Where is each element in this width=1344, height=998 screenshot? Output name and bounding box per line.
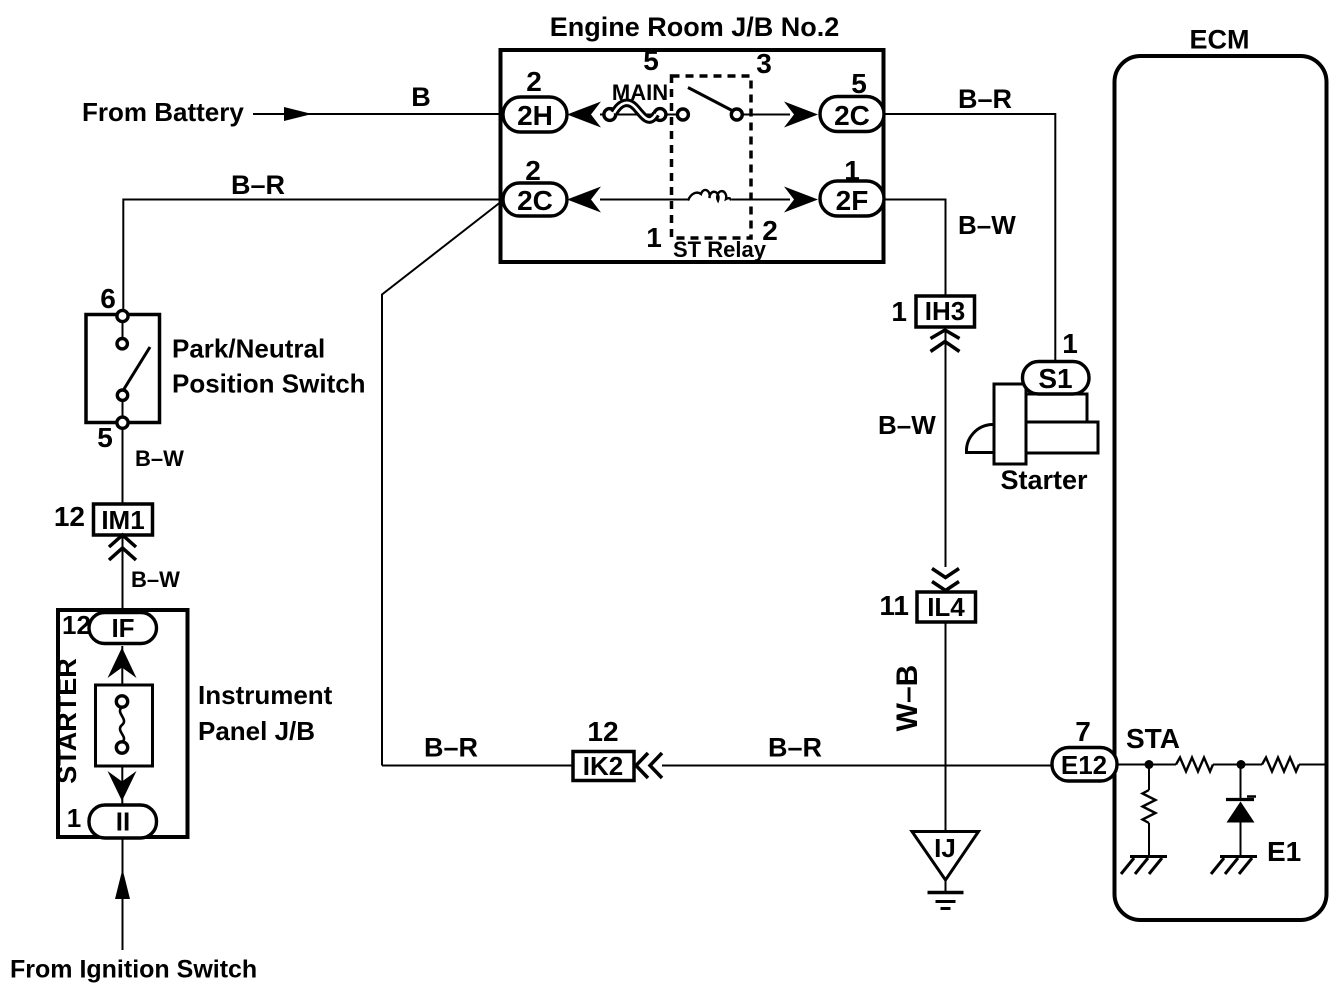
svg-text:S1: S1: [1038, 363, 1072, 394]
svg-text:1: 1: [67, 803, 81, 833]
svg-text:Starter: Starter: [1000, 465, 1088, 495]
ECM box: [1115, 56, 1327, 920]
connector IK2: [573, 752, 634, 781]
wire B-R from 2C row2 to P/N switch: [123, 200, 503, 312]
svg-text:1: 1: [891, 296, 907, 327]
Engine Room J/B No.2 block: [501, 50, 884, 262]
wire diagonal from 2C row2 to bottom bus: [382, 201, 502, 766]
svg-text:IM1: IM1: [101, 505, 144, 535]
wire P/N switch to IM1: [122, 428, 124, 505]
svg-text:B–W: B–W: [958, 210, 1016, 240]
arrowhead from ignition switch: [115, 869, 130, 899]
P/N switch terminal circles and arm: [122, 316, 124, 344]
svg-text:B–R: B–R: [958, 84, 1012, 114]
arrowhead into 2H: [567, 102, 601, 128]
svg-text:B–R: B–R: [231, 170, 285, 200]
relay switch contact left: [677, 109, 688, 120]
ST Relay dashed enclosure: [672, 76, 752, 238]
svg-text:B–W: B–W: [878, 410, 936, 440]
wire From Battery feed B: [253, 113, 503, 115]
connector chevrons IK2: [636, 753, 648, 778]
svg-text:STA: STA: [1126, 723, 1180, 754]
svg-text:IF: IF: [111, 613, 134, 643]
arrowhead into 2F: [784, 187, 818, 213]
bottom bus wire B-R: [382, 765, 573, 767]
svg-text:IJ: IJ: [934, 833, 956, 863]
wire IK2 to E12: [662, 765, 1052, 767]
svg-text:Instrument: Instrument: [198, 680, 333, 710]
arrow down inside panel: [108, 771, 137, 801]
arrow up inside panel: [108, 648, 137, 679]
wire B-R from 2C to starter S1: [884, 114, 1055, 361]
svg-text:5: 5: [851, 68, 867, 99]
wire fuse to II: [121, 765, 123, 806]
connector chevrons IM1: [109, 535, 136, 547]
connector 2C top right: [820, 97, 884, 132]
svg-text:E12: E12: [1061, 750, 1107, 780]
wire to ECM right: [1299, 764, 1325, 766]
connector IL4: [917, 592, 976, 622]
wire IF to fuse: [121, 646, 123, 686]
connector IH3: [916, 296, 975, 327]
connector II: [89, 805, 157, 838]
svg-text:5: 5: [643, 45, 659, 76]
resistor R2: [1262, 758, 1299, 772]
resistor R1: [1176, 758, 1213, 772]
connector IM1: [94, 504, 153, 535]
fuse symbol: [116, 696, 127, 707]
svg-text:2H: 2H: [517, 100, 553, 131]
starter motor drawing: [966, 425, 1000, 453]
svg-text:5: 5: [97, 422, 113, 453]
wire IH3 to IL4: [945, 330, 947, 567]
svg-text:3: 3: [756, 48, 772, 79]
svg-text:11: 11: [879, 590, 909, 621]
connector S1: [1023, 362, 1090, 395]
junction node 2: [1237, 760, 1246, 769]
svg-text:Position Switch: Position Switch: [172, 369, 366, 399]
svg-text:II: II: [116, 807, 130, 837]
connector 2F: [820, 181, 884, 216]
wire E12 to internal network: [1117, 764, 1176, 766]
wire row2 inside J/B: [600, 199, 688, 201]
wire IM1 to Instrument Panel J/B: [122, 535, 124, 609]
svg-text:From Battery: From Battery: [82, 97, 244, 127]
svg-text:B–R: B–R: [424, 733, 478, 763]
arrowhead battery feed: [284, 107, 312, 121]
svg-text:From Ignition Switch: From Ignition Switch: [10, 956, 257, 984]
svg-text:ST Relay: ST Relay: [673, 237, 767, 262]
svg-text:12: 12: [62, 610, 91, 640]
svg-text:IH3: IH3: [925, 296, 965, 326]
connector 2C row2 left: [503, 183, 567, 216]
svg-text:12: 12: [54, 501, 85, 532]
svg-text:2F: 2F: [836, 185, 869, 216]
svg-text:Park/Neutral: Park/Neutral: [172, 334, 325, 364]
svg-text:IK2: IK2: [583, 751, 623, 781]
svg-text:12: 12: [587, 716, 618, 747]
wire 2F to IH3: [884, 200, 946, 297]
svg-text:STARTER: STARTER: [52, 658, 82, 784]
svg-text:Panel J/B: Panel J/B: [198, 716, 315, 746]
Instrument Panel J/B box: [58, 610, 188, 837]
svg-text:7: 7: [1075, 716, 1091, 747]
ground symbol IJ: [912, 832, 979, 881]
svg-text:6: 6: [100, 283, 116, 314]
wire between resistors: [1213, 764, 1262, 766]
relay switch contact right: [731, 109, 742, 120]
svg-text:2: 2: [762, 215, 778, 246]
diode D1: [1226, 798, 1254, 801]
svg-text:W–B: W–B: [891, 665, 924, 732]
connector IF: [89, 613, 157, 644]
STARTER fuse box: [96, 685, 153, 766]
svg-text:B–W: B–W: [131, 567, 180, 592]
svg-text:B–W: B–W: [135, 446, 184, 471]
chassis ground 2: [1220, 855, 1257, 858]
connector E12: [1052, 748, 1117, 782]
wire row1 inside J/B: [600, 114, 684, 116]
connector chevrons IH3: [931, 330, 960, 339]
arrowhead into 2C top right: [784, 102, 818, 128]
connector 2H: [503, 97, 567, 132]
wire II to ignition switch: [122, 837, 124, 950]
svg-text:2: 2: [526, 66, 542, 97]
svg-text:Engine Room J/B No.2: Engine Room J/B No.2: [550, 12, 840, 42]
resistor R3 vertical: [1143, 790, 1156, 823]
junction node 1: [1145, 760, 1154, 769]
Park/Neutral Position Switch box: [86, 315, 160, 423]
relay switch arm: [688, 88, 734, 112]
svg-text:B: B: [411, 82, 431, 112]
svg-text:1: 1: [646, 222, 662, 253]
svg-text:ECM: ECM: [1190, 25, 1250, 55]
svg-text:E1: E1: [1267, 836, 1301, 867]
svg-text:2C: 2C: [834, 100, 870, 131]
relay coil: [688, 190, 731, 201]
chassis ground 1: [1130, 855, 1167, 858]
arrowhead into 2C row2: [567, 187, 601, 213]
pull-down resistor branch: [1148, 765, 1150, 791]
connector chevrons IL4: [932, 569, 959, 578]
svg-text:B–R: B–R: [768, 733, 822, 763]
diode branch: [1240, 765, 1242, 801]
svg-text:1: 1: [1062, 328, 1078, 359]
svg-text:2C: 2C: [517, 185, 553, 216]
wire IL4 to ground IJ: [945, 622, 947, 831]
svg-text:IL4: IL4: [927, 592, 965, 622]
